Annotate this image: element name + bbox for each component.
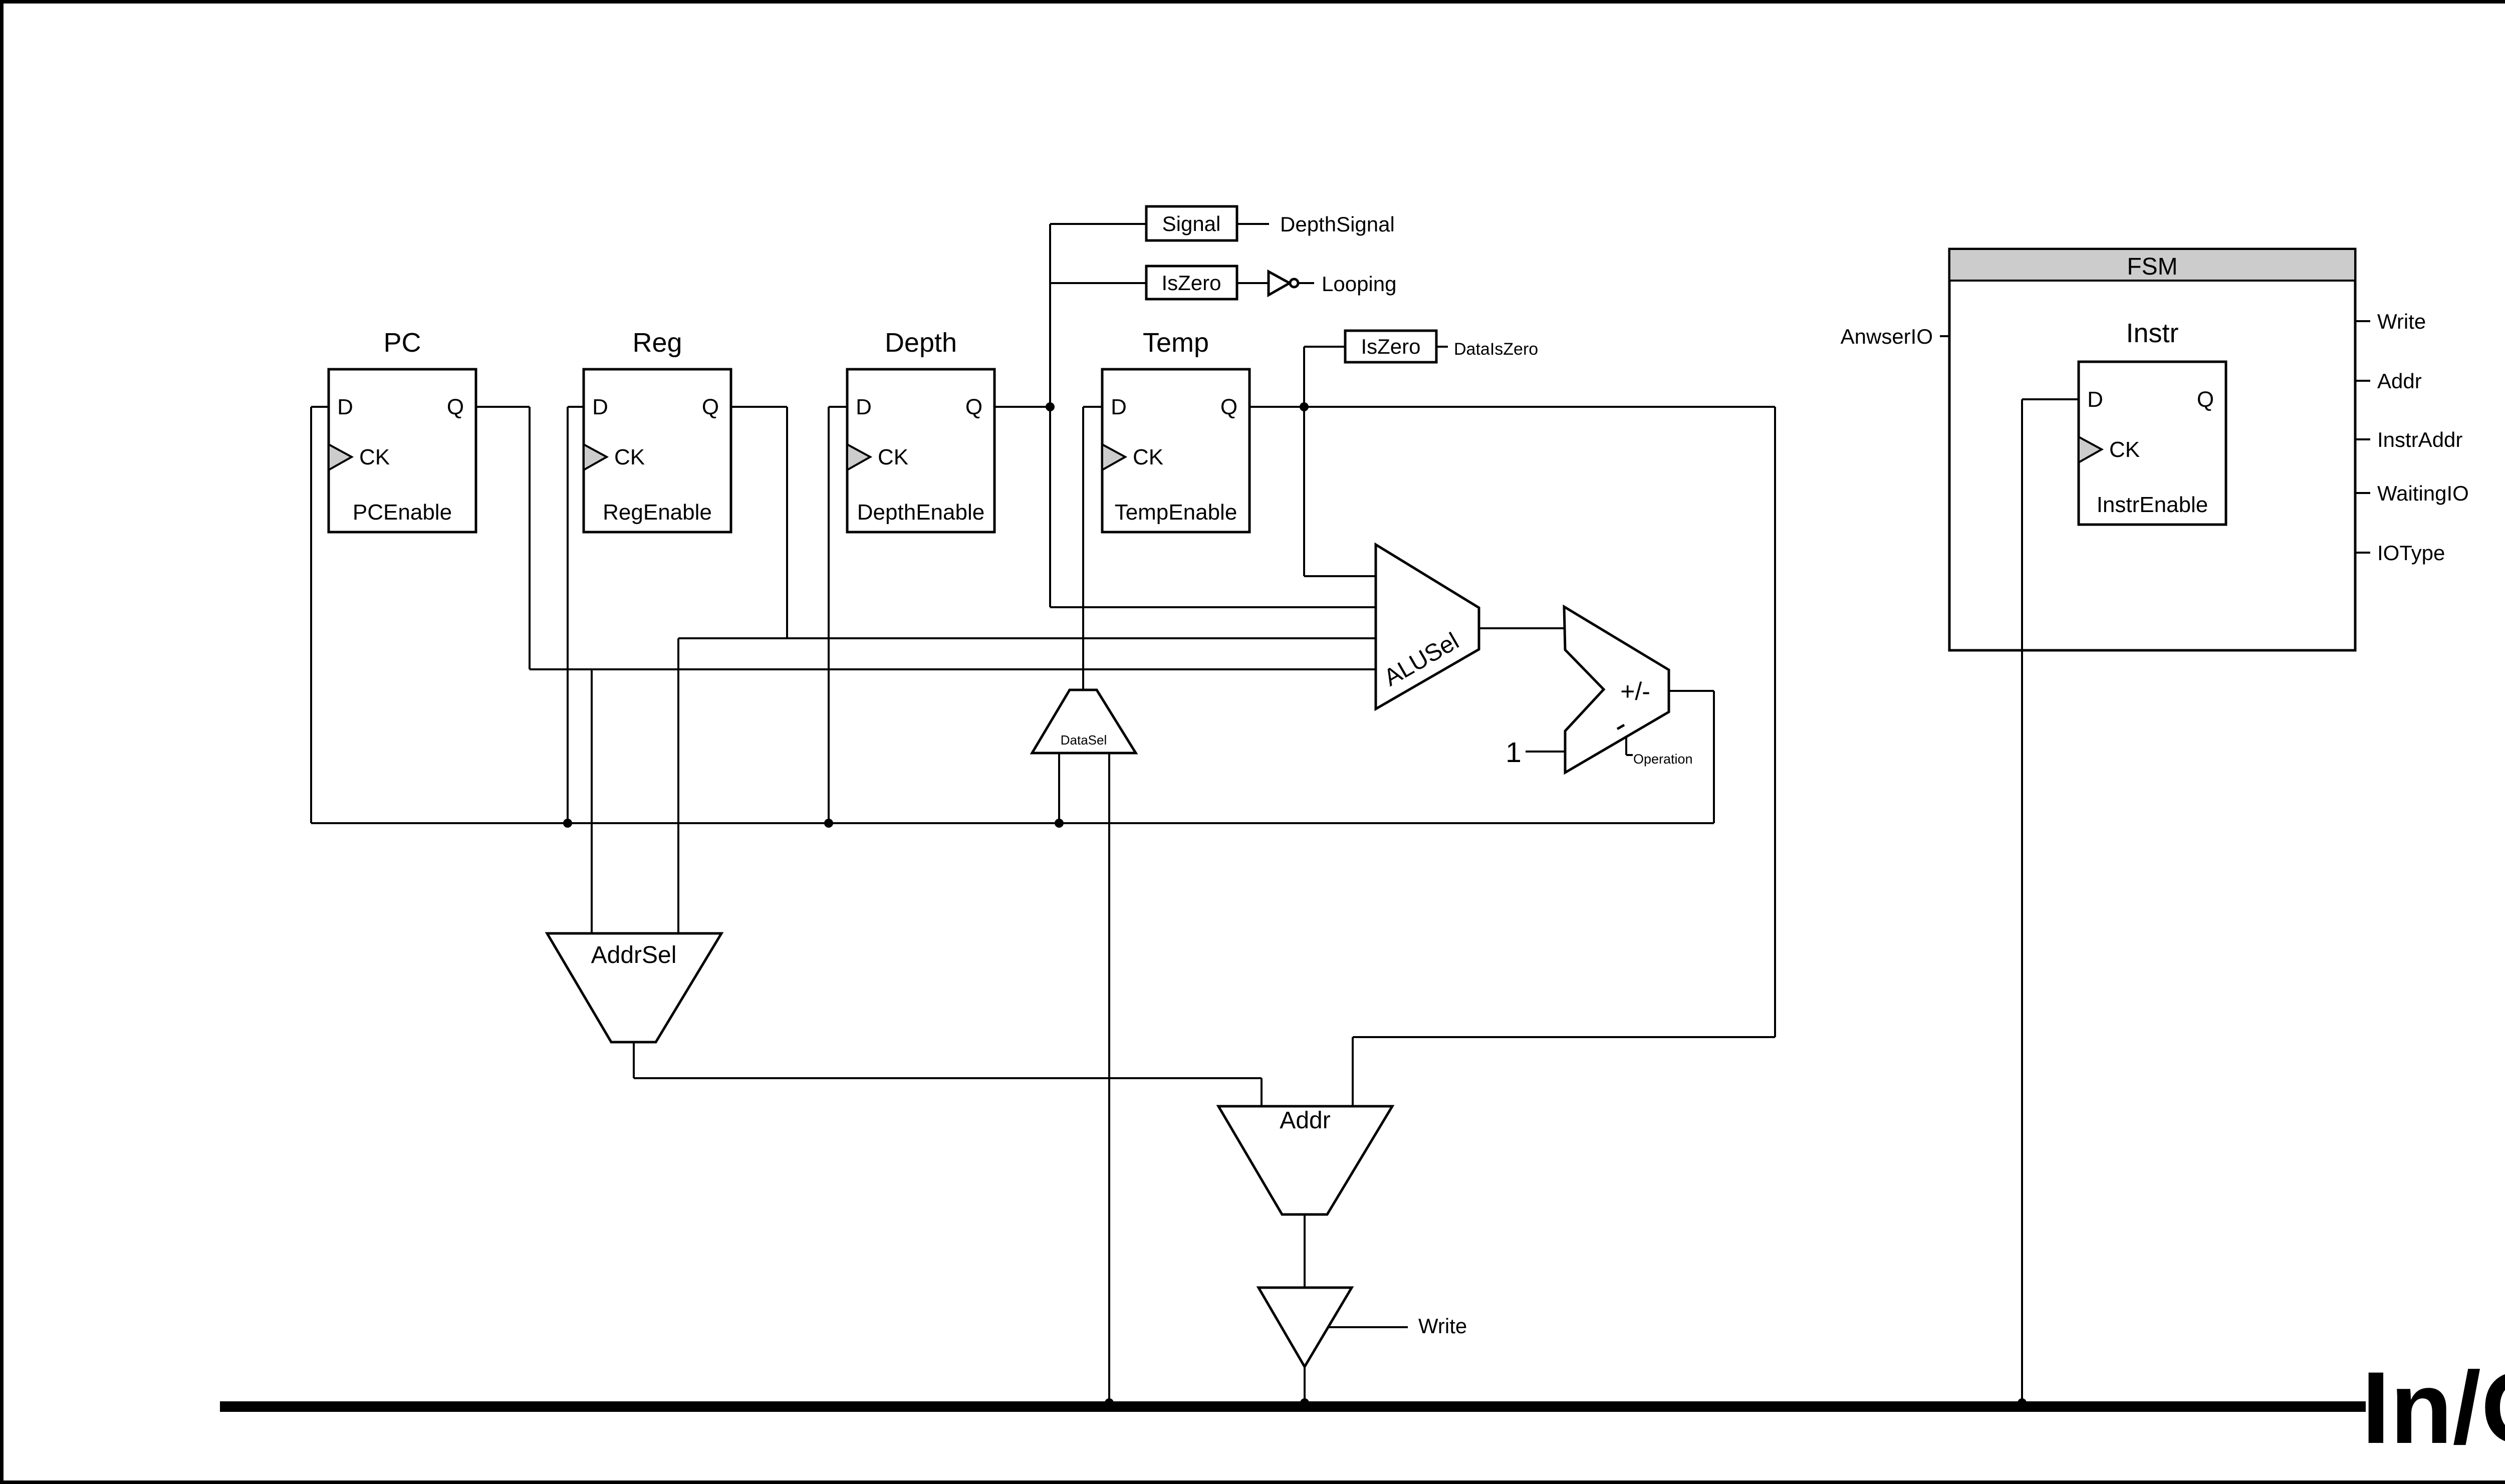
- svg-text:Addr: Addr: [1280, 1107, 1330, 1134]
- svg-text:Operation: Operation: [1633, 752, 1693, 767]
- svg-text:Instr: Instr: [2126, 318, 2178, 348]
- svg-text:InstrAddr: InstrAddr: [2377, 428, 2462, 451]
- svg-text:Looping: Looping: [1322, 272, 1396, 296]
- svg-text:DataSel: DataSel: [1061, 732, 1107, 748]
- svg-text:DepthSignal: DepthSignal: [1280, 212, 1395, 236]
- svg-text:DepthEnable: DepthEnable: [857, 500, 984, 525]
- svg-text:IsZero: IsZero: [1161, 271, 1221, 295]
- svg-text:In/Out: In/Out: [2362, 1351, 2505, 1465]
- svg-text:AddrSel: AddrSel: [591, 942, 677, 968]
- svg-text:IsZero: IsZero: [1361, 335, 1420, 358]
- svg-text:Write: Write: [1418, 1314, 1467, 1338]
- svg-text:+/-: +/-: [1620, 677, 1650, 705]
- svg-text:InstrEnable: InstrEnable: [2097, 492, 2208, 517]
- svg-text:WaitingIO: WaitingIO: [2377, 481, 2469, 505]
- svg-text:RegEnable: RegEnable: [603, 500, 712, 525]
- svg-text:Addr: Addr: [2377, 369, 2422, 393]
- svg-text:FSM: FSM: [2127, 254, 2177, 280]
- svg-text:TempEnable: TempEnable: [1115, 500, 1237, 525]
- svg-text:Write: Write: [2377, 310, 2426, 333]
- svg-text:Depth: Depth: [885, 328, 957, 358]
- svg-text:Temp: Temp: [1143, 328, 1209, 358]
- svg-text:IOType: IOType: [2377, 541, 2445, 565]
- svg-text:Signal: Signal: [1162, 212, 1221, 235]
- svg-text:Reg: Reg: [632, 328, 682, 358]
- svg-text:AnwserIO: AnwserIO: [1841, 325, 1933, 348]
- svg-text:DataIsZero: DataIsZero: [1454, 340, 1538, 359]
- svg-text:1: 1: [1506, 736, 1522, 769]
- svg-text:PCEnable: PCEnable: [353, 500, 452, 525]
- svg-text:PC: PC: [383, 328, 421, 358]
